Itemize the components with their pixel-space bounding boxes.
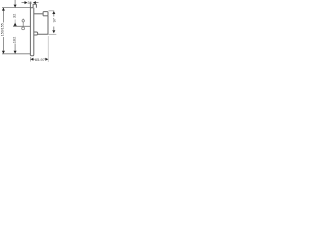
wire bottom-left extension line (2, 53, 30, 55)
dimension line 150/155 (overall height, left) (0, 8, 5, 54)
wire top extension line (2, 7, 30, 9)
dimension 32 (upper segment, second axis) (12, 0, 17, 26)
svg-text:150/155: 150/155 (0, 23, 4, 36)
wire extension right of lever bottom (48, 33, 56, 35)
svg-text:36: 36 (28, 1, 32, 5)
svg-text:32: 32 (12, 14, 17, 18)
svg-text:182: 182 (12, 37, 17, 44)
fixing point symbols on mid line (22, 19, 25, 30)
escutcheon plate profile with top lug (30, 4, 36, 56)
bottom dimension 65-97 (projection) (30, 57, 48, 62)
wire mid-left extension line (13, 25, 30, 27)
svg-text:97: 97 (52, 18, 57, 22)
svg-text:65-97: 65-97 (35, 57, 45, 62)
handle knob and lever profile (34, 12, 48, 35)
wire faint vertical extension below handle front (47, 36, 49, 62)
wall / plate back line (29, 2, 31, 55)
dimension line right (handle height) (52, 11, 57, 33)
small top dimension 36 with inward arrows (22, 1, 39, 5)
dimension 182 (lower segment, second axis) (12, 37, 17, 54)
wire extension above knob (49, 10, 55, 12)
